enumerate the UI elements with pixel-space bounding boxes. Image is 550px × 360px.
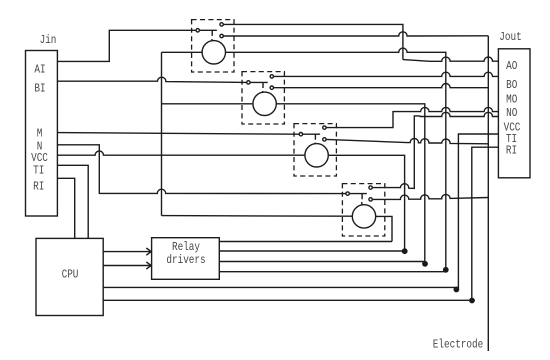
wire K2 coil right down to driver line 3: [276, 104, 425, 262]
relay K2 common contact: [247, 81, 250, 84]
svg-text:NO: NO: [506, 107, 517, 120]
svg-text:VCC: VCC: [31, 152, 48, 165]
relay drivers U2: [152, 238, 220, 280]
wire K4 coil right down to driver line 1: [376, 216, 393, 241]
wire K4 NO to riser (hop over K3 coil riser): [372, 116, 419, 188]
relay K2 dashed box: [242, 72, 284, 124]
wire M to K3 common: [58, 133, 300, 135]
wire RI down to CPU: [57, 178, 74, 238]
junction dot driver3/K2 coil: [422, 261, 428, 267]
arrow CPU to drivers 2: [103, 262, 151, 269]
wire K1 coil right to riser (hop over K1 NO riser): [225, 48, 445, 272]
relay K1 NC contact: [220, 34, 223, 37]
svg-text:CPU: CPU: [62, 269, 79, 282]
wire K2 NO to Jout BO (hops): [274, 72, 499, 76]
relay K3 dashed box: [294, 124, 336, 176]
wire BI to K2 common (hop over coil-common riser): [58, 77, 247, 82]
junction dot CPU RI riser: [469, 298, 475, 304]
relay K4 blade: [349, 194, 367, 206]
wire K2 coil left: [162, 103, 254, 105]
connector Jin: [26, 51, 58, 217]
wire coil common riser: [161, 52, 163, 215]
relay K4 coil: [352, 205, 375, 228]
relay K2 blade: [250, 82, 268, 92]
wire driver line 4: [219, 271, 445, 273]
svg-text:BO: BO: [506, 79, 517, 92]
electrode line vertical: [487, 36, 489, 351]
svg-text:TI: TI: [33, 165, 44, 178]
wire K3 NO riser to Jout NO (hops over K2 coil riser, K1 coil riser, electrode): [326, 107, 498, 127]
wire K4 coil left: [162, 215, 353, 218]
relay K3 common contact: [299, 133, 302, 136]
svg-text:AO: AO: [506, 60, 517, 73]
relay K4 dashed box: [342, 184, 384, 236]
wire K2 NC to electrode line (hop over K1 coil riser): [274, 84, 489, 88]
svg-text:Relay: Relay: [172, 241, 201, 254]
relay K1 common contact: [196, 29, 199, 32]
wire K1 NC to electrode line top (hop over K1 NO riser): [223, 32, 488, 36]
wire VCC to K3 coil left (hop over N riser): [58, 151, 306, 155]
wire K1 NO to corner riser: [223, 24, 403, 59]
relay K1 dashed box: [192, 20, 234, 72]
wire K4 NC to electrode line (hops over K3 coil riser, K2 coil riser, K1 coil riser): [372, 194, 488, 199]
wire K4 NO across to Jout NO2 (hops over K1 coil riser, electrode): [420, 112, 499, 116]
wire CPU RI line to Jout RI: [103, 147, 498, 300]
relay K3 NC contact: [323, 138, 326, 141]
wire driver line 1: [219, 241, 392, 243]
wire driver line 3: [219, 261, 424, 263]
svg-text:AI: AI: [34, 63, 45, 76]
wire K1 coil left: [162, 51, 203, 53]
CPU U1: [36, 238, 103, 315]
svg-text:BI: BI: [34, 82, 45, 95]
junction dot CPU TI riser: [454, 287, 460, 293]
relay K3 blade: [303, 134, 321, 144]
wire N to K4 common (down jog, hop over coil-common riser): [58, 145, 346, 194]
svg-text:RI: RI: [506, 145, 517, 158]
relay K3 coil: [305, 144, 328, 167]
relay K4 common contact: [346, 192, 349, 195]
relay K4 NC contact: [369, 198, 372, 201]
svg-text:Electrode: Electrode: [433, 338, 484, 351]
svg-text:RI: RI: [33, 181, 44, 194]
wire K3 NC to electrode line (hops over K4 NO riser, K2 coil riser, K1 coil riser): [326, 139, 488, 144]
relay K3 NO contact: [323, 126, 326, 129]
junction dot driver4/K1 coil: [443, 267, 449, 273]
wire CPU TI line to Jout TI: [103, 134, 498, 287]
svg-text:drivers: drivers: [166, 254, 205, 267]
svg-text:M: M: [37, 127, 43, 140]
svg-text:Jin: Jin: [40, 34, 57, 47]
relay K1 coil: [202, 41, 225, 64]
wire K3 coil right down to driver line 2: [328, 155, 405, 251]
relay K2 coil: [253, 92, 276, 115]
svg-text:MO: MO: [506, 94, 517, 107]
relay K4 NO contact: [369, 186, 372, 189]
wire AI to K1 common: [57, 30, 196, 61]
wire TI down to CPU: [57, 165, 88, 238]
svg-text:Jout: Jout: [499, 31, 521, 44]
relay K1 NO contact: [220, 23, 223, 26]
wire driver line 2: [219, 250, 404, 252]
relay K1 blade: [199, 30, 217, 40]
wire AO line to Jout (hops over K1 coil riser and electrode line): [403, 57, 499, 61]
connector Jout: [498, 49, 530, 178]
relay K2 NO contact: [270, 75, 273, 78]
arrow CPU to drivers 1: [103, 248, 151, 255]
relay K2 NC contact: [270, 86, 273, 89]
junction dot driver2/K3 coil: [402, 248, 408, 254]
